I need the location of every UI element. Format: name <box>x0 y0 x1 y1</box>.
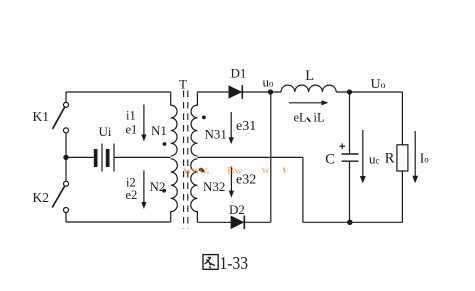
node uo <box>268 89 273 94</box>
polarity dot N31 <box>202 116 206 120</box>
svg-text:e31: e31 <box>236 119 256 134</box>
wire center tap down leg <box>302 157 304 222</box>
svg-text:Bw: Bw <box>227 165 242 177</box>
svg-text:K2: K2 <box>33 190 50 205</box>
wire right side upper <box>401 92 403 145</box>
polarity dot N2 <box>162 189 166 193</box>
wire between K1 and junction <box>65 133 67 181</box>
e32 arrow <box>229 167 234 198</box>
transformer T core <box>184 91 188 230</box>
svg-text:w: w <box>262 164 270 176</box>
watermark orange text <box>184 164 270 177</box>
eL iL arrow <box>289 100 329 105</box>
caption tu 1-33 <box>203 253 248 273</box>
diode D1 <box>229 85 243 99</box>
wire uo riser <box>270 92 272 222</box>
svg-text:K1: K1 <box>33 109 50 124</box>
svg-text:N2: N2 <box>150 179 166 194</box>
wire below K2 <box>65 213 67 223</box>
svg-text:D2: D2 <box>229 202 245 217</box>
wire right side lower <box>401 171 403 222</box>
svg-text:Io: Io <box>420 151 430 166</box>
svg-text:R: R <box>385 151 395 167</box>
svg-text:Uo: Uo <box>371 77 386 92</box>
wire secondary top rail to L <box>197 91 281 93</box>
svg-text:eL: eL <box>294 111 307 125</box>
secondary winding N32 <box>191 159 198 223</box>
svg-text:L: L <box>305 68 314 84</box>
svg-text:www.: www. <box>184 165 210 177</box>
wire center tap horizontal <box>197 156 303 158</box>
wire bottom-left rail <box>66 221 171 223</box>
svg-text:1-33: 1-33 <box>220 253 249 273</box>
svg-text:uc: uc <box>369 152 380 167</box>
wire top-left rail <box>66 91 171 93</box>
current arrow i1 e1 <box>141 105 146 142</box>
diode D2 <box>231 216 245 230</box>
wire bottom output rail <box>303 221 403 223</box>
switch K2 <box>52 181 68 212</box>
secondary winding N31 <box>191 92 197 156</box>
svg-text:e2: e2 <box>126 188 138 202</box>
Io arrow <box>412 131 418 183</box>
primary winding N2 <box>171 159 178 222</box>
node C bottom <box>347 220 352 225</box>
svg-text:i1: i1 <box>126 109 136 123</box>
svg-text:N1: N1 <box>151 123 167 138</box>
primary winding N1 <box>171 92 177 156</box>
inductor L <box>281 85 336 92</box>
svg-text:iL: iL <box>314 111 325 125</box>
svg-text:N32: N32 <box>203 179 225 194</box>
battery Ui <box>66 144 171 172</box>
e31 arrow <box>229 112 234 144</box>
wire L to right corner <box>336 91 402 93</box>
node C top <box>347 89 352 94</box>
svg-text:uo: uo <box>263 75 275 90</box>
svg-text:Ui: Ui <box>99 124 112 139</box>
switch K1 <box>53 102 69 132</box>
capacitor C <box>340 92 359 222</box>
polarity dot N32 <box>199 168 203 172</box>
svg-text:e1: e1 <box>126 123 138 137</box>
current arrow i2 e2 <box>141 170 146 209</box>
uc arrow <box>360 130 366 184</box>
resistor R <box>397 145 408 171</box>
wire D2 branch <box>197 221 270 223</box>
polarity dot N1 <box>163 142 167 146</box>
svg-text:D1: D1 <box>231 66 247 81</box>
svg-text:T: T <box>179 77 187 92</box>
node battery tap junction <box>63 155 68 160</box>
svg-text:C: C <box>325 152 335 168</box>
svg-text:N31: N31 <box>205 127 227 142</box>
wire left vertical upper segment <box>65 92 67 102</box>
